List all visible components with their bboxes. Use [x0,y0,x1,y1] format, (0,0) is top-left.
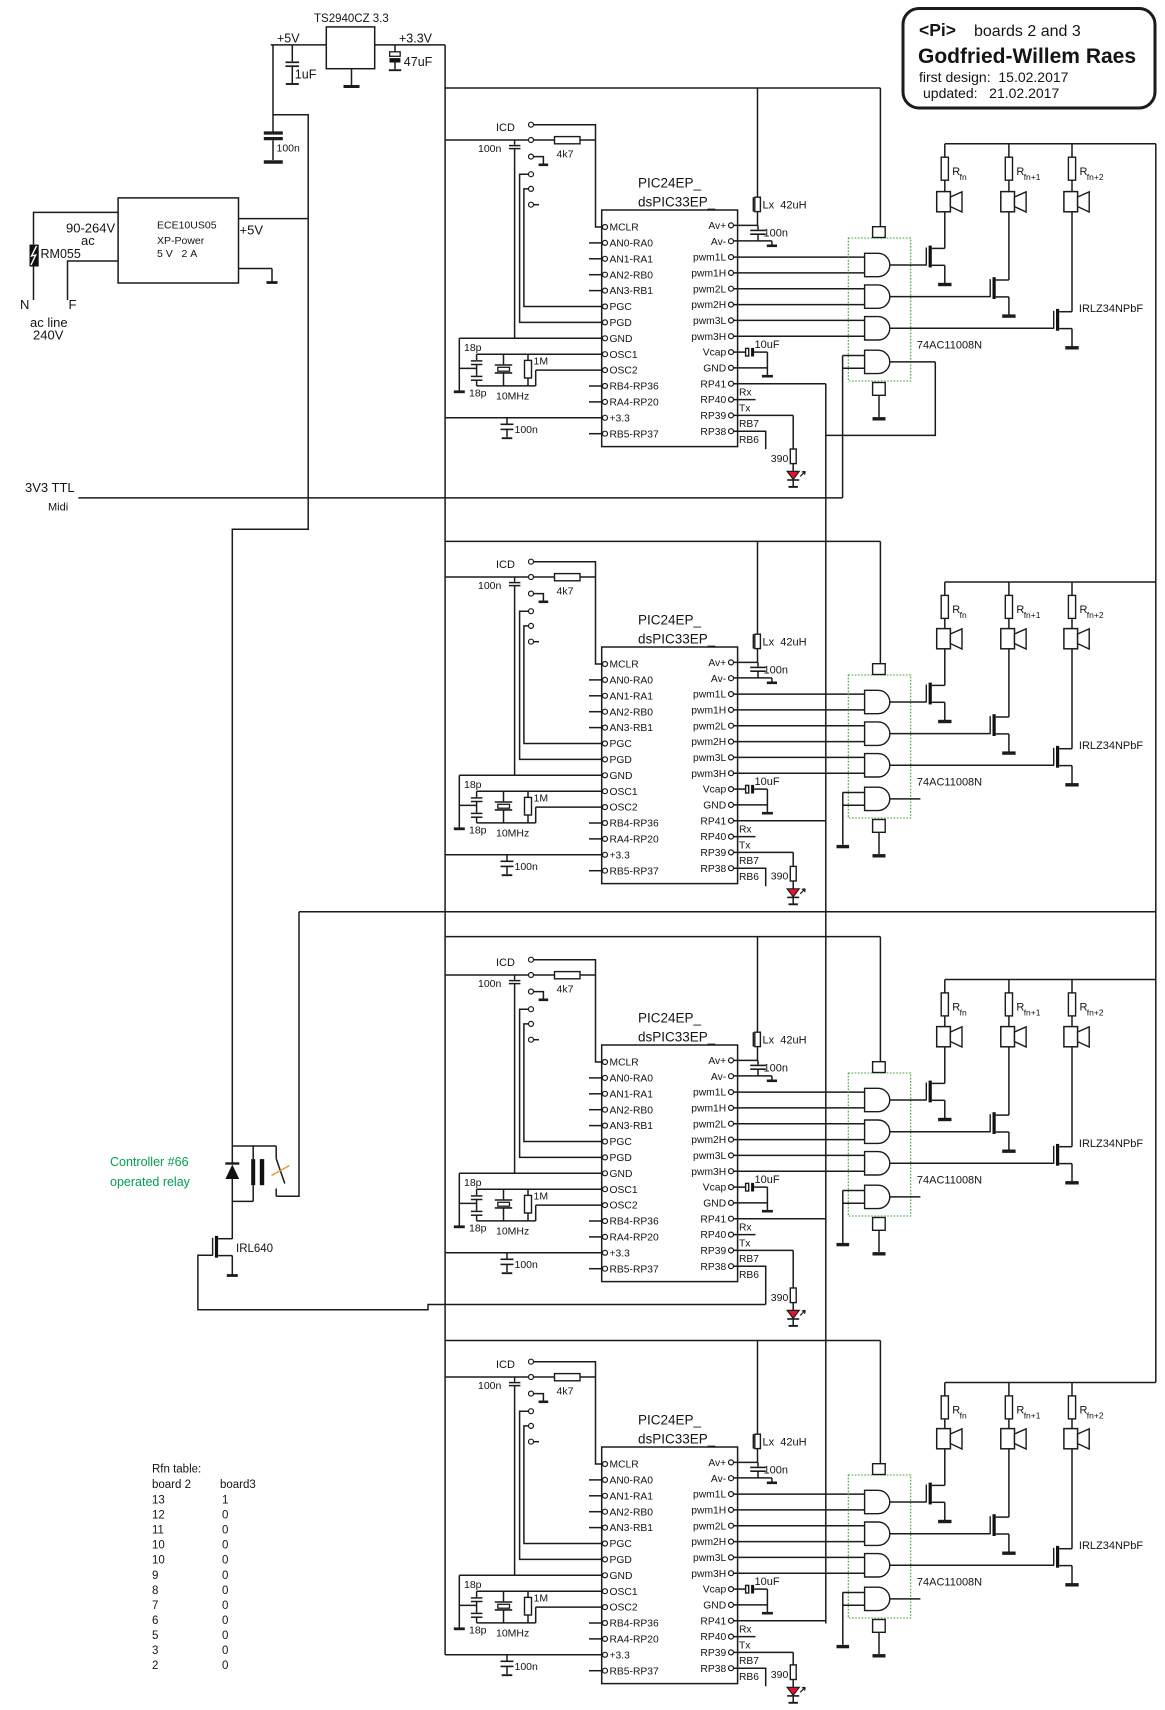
svg-text:Av+: Av+ [708,1056,726,1067]
wire ICD pin4 to PGD board2 [520,611,603,759]
microcontroller U1 PIC24EP_/dsPIC33EP_ board4 [602,1447,738,1684]
wire drain to speaker board4 [944,1449,946,1486]
pin +3.3 board1 [603,415,608,420]
crystal X1 10MHz board2 [503,791,505,801]
pin Av- board4 [729,1476,734,1481]
svg-text:RA4-RP20: RA4-RP20 [610,1635,659,1646]
wire drain to speaker board4 [1071,1449,1073,1549]
wire pwm1L to gate board3 [734,1091,865,1093]
pin AN3-RB1 board1 [603,288,608,293]
wire Av+ board1 [734,224,758,226]
pin pwm3H board3 [729,1169,734,1174]
wire stub RA4-RP20 board2 [589,838,602,840]
relay actuation slash [272,1166,290,1176]
wire feed to inductor Lx board4 [757,1341,759,1435]
crystal X1 10MHz board4 [503,1591,505,1601]
wire gate B output board3 [890,1131,990,1133]
svg-text:<Pi>: <Pi> [919,20,956,40]
resistor Rfn1 board2 [1008,582,1010,595]
ground of Q3 source board2 [1071,766,1073,785]
svg-text:1M: 1M [534,1593,549,1605]
svg-text:RB4-RP36: RB4-RP36 [610,382,659,393]
pin Av+ board2 [729,660,734,665]
wire RP38 RB6 board2 [734,868,766,886]
ground of crystal board4 [458,1575,460,1629]
svg-text:AN1-RA1: AN1-RA1 [610,1491,654,1502]
wire stub AN1-RA1 board4 [589,1495,602,1497]
svg-text:100n: 100n [764,227,788,239]
svg-text:AN1-RA1: AN1-RA1 [610,691,654,702]
capacitor 100n decoupling board2 [506,855,508,861]
wire GND pin to crystal ground board4 [459,1574,602,1576]
svg-text:100n: 100n [478,143,502,155]
wire stub AN2-RB0 board2 [589,711,602,713]
inductor Lx 42uH board4 [752,1434,754,1448]
wire caps midpoint to ground board4 [459,1604,476,1606]
pin RP40 board4 [729,1634,734,1639]
svg-text:100n: 100n [515,861,539,873]
wire GND right board3 [734,1202,768,1204]
wire pwm2L to gate board4 [734,1525,865,1527]
wire pwm2L to gate board3 [734,1123,865,1125]
resistor Rfn2 board3 [1071,980,1073,993]
svg-text:MCLR: MCLR [610,223,639,234]
svg-text:Av+: Av+ [708,658,726,669]
resistor Rfn2 board4 [1071,1383,1073,1396]
wire RP38 RB6 board1 [734,431,766,449]
pin AN2-RB0 board1 [603,272,608,277]
inductor Lx 42uH board3 [752,1032,754,1046]
wire +5V riser to regulator rail [273,45,308,219]
svg-text:Av+: Av+ [708,1458,726,1469]
svg-text:PGD: PGD [610,1153,632,1164]
resistor Rfn2 board1 [1071,144,1073,157]
ground of Q3 source board3 [1071,1164,1073,1183]
svg-text:fn+2: fn+2 [1087,172,1104,182]
wire gate D output board1 [890,361,935,363]
transistor Q5 IRL640 [212,1238,214,1256]
svg-text:Controller #66: Controller #66 [110,1155,189,1169]
pin GND board4 [603,1573,608,1578]
wire logic supply feed board1 [445,87,880,89]
svg-text:PIC24EP_: PIC24EP_ [638,176,702,191]
pin RP38 board1 [729,429,734,434]
wire stub AN0-RA0 board2 [589,679,602,681]
wire gate D input1 board2 [843,792,865,794]
wire pwm3L to gate board1 [734,319,865,321]
wire ICD pin1 to MCLR board1 [534,125,603,227]
wire drain to speaker board3 [1071,1047,1073,1147]
svg-text:N: N [20,297,29,312]
pin pwm2H board3 [729,1137,734,1142]
ground of Q1 source board1 [944,265,946,284]
wire OSC2 board1 [536,369,603,371]
wire ICD pin3 to ground board4 [534,1394,544,1401]
capacitor 100n on +5V [272,115,274,132]
svg-text:+3.3: +3.3 [610,850,631,861]
AND array 74AC11008N board4 [848,1475,910,1618]
wire GND right board1 [734,367,768,369]
wire pwm2L to gate board1 [734,288,865,290]
svg-text:Vcap: Vcap [703,785,727,796]
wire pwm1H to gate board4 [734,1509,865,1511]
svg-text:board3: board3 [220,1479,256,1491]
svg-text:pwm1H: pwm1H [691,1104,726,1115]
wire OSC1 rail board3 [477,1188,603,1190]
wire +3.3 supply to PIC board2 [445,854,602,856]
wire gate D output board2 [890,798,920,800]
svg-text:pwm3H: pwm3H [691,1569,726,1580]
svg-text:pwm3L: pwm3L [693,753,726,764]
pin MCLR board1 [603,225,608,230]
svg-text:100n: 100n [764,1062,788,1074]
svg-text:OSC1: OSC1 [610,350,638,361]
svg-text:TS2940CZ 3.3: TS2940CZ 3.3 [314,13,389,25]
speaker LS1 board3 [937,1027,951,1047]
svg-text:ac: ac [81,233,95,248]
svg-text:OSC2: OSC2 [610,1603,638,1614]
pin OSC2 board1 [603,368,608,373]
pin GND board4 [729,1602,734,1607]
pin Vcap board1 [729,350,734,355]
svg-text:AN0-RA0: AN0-RA0 [610,1074,654,1085]
wire drain to speaker board1 [944,212,946,249]
wire feed to gate array board4 [879,1341,881,1464]
svg-text:Rx: Rx [739,388,752,399]
svg-text:pwm2L: pwm2L [693,284,726,295]
svg-text:fn: fn [960,1411,967,1421]
AND gate U1B board1 [865,285,890,308]
wire drain to speaker board1 [1071,212,1073,312]
svg-text:0: 0 [222,1555,228,1567]
svg-text:boards 2 and 3: boards 2 and 3 [974,23,1081,40]
pin PGD board1 [603,320,608,325]
svg-text:GND: GND [610,771,633,782]
resistor Rfn1 board1 [1008,144,1010,157]
svg-text:10uF: 10uF [755,1576,780,1588]
pin PGC board2 [603,741,608,746]
ground pin of gate array board4 [873,1620,886,1633]
pin RP39 board1 [729,413,734,418]
svg-text:ICD: ICD [496,559,515,571]
wire pwm3H to gate board4 [734,1572,865,1574]
wire +3.3 supply to PIC board1 [445,417,602,419]
pin pwm1H board2 [729,707,734,712]
wire +5V down to relay feed [232,219,308,1146]
wire drain to speaker board2 [1071,649,1073,749]
wire caps midpoint to ground board1 [459,367,476,369]
speaker LS1 board1 [937,192,951,212]
wire stub RB5-RP37 board3 [589,1268,602,1270]
pin OSC2 board3 [603,1203,608,1208]
wire gate C output board3 [890,1162,1054,1164]
pin AN1-RA1 board1 [603,256,608,261]
svg-text:4k7: 4k7 [557,586,574,598]
wire Av+ board3 [734,1059,758,1061]
pin RP40 board1 [729,397,734,402]
svg-text:1M: 1M [534,356,549,368]
pin pwm2L board1 [729,286,734,291]
LED D2 board3 [787,1310,799,1318]
wire RP41 Rx board3 [734,1218,826,1220]
pin AN1-RA1 board3 [603,1091,608,1096]
pin pwm2H board2 [729,739,734,744]
svg-text:pwm1H: pwm1H [691,1506,726,1517]
wire OSC2 board3 [536,1204,603,1206]
wire pwm2H to gate board1 [734,304,865,306]
svg-text:74AC11008N: 74AC11008N [917,776,982,788]
pin RP41 board2 [729,818,734,823]
svg-text:pwm3L: pwm3L [693,1553,726,1564]
pin RB5-RP37 board3 [603,1266,608,1271]
svg-text:Vcap: Vcap [703,348,727,359]
pin AN1-RA1 board2 [603,693,608,698]
svg-text:GND: GND [610,334,633,345]
transistor Q1 IRLZ34NPbF board2 [925,685,927,703]
wire GND pin to crystal ground board2 [459,774,602,776]
wire gate D output board4 [890,1598,920,1600]
pin RB4-RP36 board1 [603,384,608,389]
speaker LS1 board2 [937,629,951,649]
pin pwm1L board1 [729,255,734,260]
svg-text:390: 390 [771,870,789,882]
wire gate C output board4 [890,1564,1054,1566]
wire gate D input2 board4 [843,1604,865,1606]
wire pwm2L to gate board2 [734,725,865,727]
pin +3.3 board4 [603,1652,608,1657]
svg-text:RP38: RP38 [700,1262,726,1273]
svg-text:18p: 18p [469,1625,487,1637]
pin RP39 board3 [729,1248,734,1253]
wire feed to gate array board1 [879,88,881,227]
svg-text:fn: fn [960,172,967,182]
svg-text:fn+2: fn+2 [1087,1008,1104,1018]
svg-text:10uF: 10uF [755,776,780,788]
svg-text:AN0-RA0: AN0-RA0 [610,1476,654,1487]
pin Vcap board3 [729,1185,734,1190]
wire pwm3L to gate board2 [734,756,865,758]
pin RP39 board4 [729,1650,734,1655]
svg-text:4k7: 4k7 [557,1386,574,1398]
wire ICD pin3 to ground board3 [534,992,544,999]
pin OSC2 board4 [603,1605,608,1610]
wire gate D input1 board1 [843,355,865,357]
wire crystal bottom rail board1 [477,385,536,387]
capacitor 100n ICD board2 [514,577,516,582]
pin pwm3L board3 [729,1153,734,1158]
wire feed to gate array board2 [879,541,881,663]
wire RP38 RB6 board4 [734,1668,766,1686]
pin RP38 board4 [729,1666,734,1671]
svg-text:0: 0 [222,1510,228,1522]
svg-text:100n: 100n [478,1380,502,1392]
wire stub AN3-RB1 board4 [589,1527,602,1529]
wire stub RB4-RP36 board3 [589,1220,602,1222]
pin RP38 board2 [729,866,734,871]
wire MIDI input line [78,497,842,499]
svg-text:18p: 18p [469,1223,487,1235]
AND gate U4B board4 [865,1522,890,1545]
transistor Q2 IRLZ34NPbF board2 [989,716,991,734]
pin pwm2H board1 [729,302,734,307]
wire RP39 to resistor 390 board1 [792,415,794,449]
svg-text:fn+1: fn+1 [1024,1411,1041,1421]
wire ICD pin1 to MCLR board2 [534,562,603,664]
svg-text:AN0-RA0: AN0-RA0 [610,239,654,250]
wire stub AN3-RB1 board1 [589,290,602,292]
diode D1 relay flyback [231,1146,233,1163]
svg-text:10MHz: 10MHz [496,828,529,840]
svg-text:0: 0 [222,1630,228,1642]
svg-text:GND: GND [610,1169,633,1180]
capacitor 18p upper board4 [476,1591,478,1597]
wire drain to speaker board3 [1008,1047,1010,1115]
wire GND right board4 [734,1604,768,1606]
capacitor 100n decoupling board1 [506,418,508,424]
svg-text:IRL640: IRL640 [236,1243,273,1255]
svg-text:GND: GND [703,1199,726,1210]
wire +3.3 supply to PIC board3 [445,1252,602,1254]
svg-text:pwm1L: pwm1L [693,1088,726,1099]
wire ICD pin5 to PGC board4 [524,1426,602,1544]
svg-text:RP39: RP39 [700,411,726,422]
svg-text:Rx: Rx [739,1223,752,1234]
pin OSC1 board2 [603,789,608,794]
svg-text:100n: 100n [277,143,301,155]
svg-text:74AC11008N: 74AC11008N [917,339,982,351]
svg-text:RB4-RP36: RB4-RP36 [610,1217,659,1228]
pin GND board1 [729,365,734,370]
pin pwm1H board1 [729,270,734,275]
svg-text:5 V 2 A: 5 V 2 A [157,248,197,260]
transistor Q3 IRLZ34NPbF board3 [1053,1146,1055,1164]
wire gate C output board1 [890,327,1054,329]
wire gate C output board2 [890,764,1054,766]
AND gate U3C board3 [865,1152,890,1175]
svg-text:Tx: Tx [739,1640,751,1651]
transistor Q2 IRLZ34NPbF board4 [989,1516,991,1534]
svg-text:RB7: RB7 [739,419,759,430]
svg-text:10: 10 [152,1555,165,1567]
wire RP41 Rx board4 [734,1620,826,1622]
svg-text:RP39: RP39 [700,1246,726,1257]
wire gate B output board1 [890,296,990,298]
svg-text:ECE10US05: ECE10US05 [157,220,217,232]
wire gate D inputs to ground board2 [842,793,844,845]
wire ICD pin2 Vdd board4 [445,1376,528,1378]
wire pwm2H to gate board2 [734,741,865,743]
wire stub RB5-RP37 board1 [589,433,602,435]
LED D2 board4 [787,1687,799,1695]
resistor Rfn0 board4 [944,1383,946,1396]
wire pwm3H to gate board3 [734,1170,865,1172]
capacitor 18p upper board3 [476,1189,478,1195]
wire RP41 Rx board2 [734,820,826,822]
wire gate D input1 board4 [843,1592,865,1594]
pin Av+ board1 [729,223,734,228]
capacitor 100n analog board1 [757,225,759,229]
speaker LS2 board1 [1001,192,1015,212]
pin PGD board2 [603,757,608,762]
svg-text:0: 0 [222,1600,228,1612]
speaker LS2 board2 [1001,629,1015,649]
speaker LS3 board3 [1064,1027,1078,1047]
pin GND board2 [603,773,608,778]
wire OSC1 rail board4 [477,1590,603,1592]
capacitor 100n ICD board4 [514,1377,516,1382]
wire gate A output board1 [890,264,926,266]
pin RA4-RP20 board1 [603,399,608,404]
svg-text:RB5-RP37: RB5-RP37 [610,429,659,440]
svg-text:operated relay: operated relay [110,1175,191,1189]
svg-text:390: 390 [771,1669,789,1681]
pin pwm1L board3 [729,1090,734,1095]
pin AN0-RA0 board2 [603,677,608,682]
svg-text:RB7: RB7 [739,856,759,867]
capacitor 100n analog board3 [757,1060,759,1064]
voltage regulator U3 TS2940CZ 3.3 [326,27,374,69]
svg-text:dsPIC33EP_: dsPIC33EP_ [638,1432,716,1447]
svg-text:Vcap: Vcap [703,1183,727,1194]
svg-text:GND: GND [703,364,726,375]
capacitor 100n ICD board1 [514,140,516,145]
wire gate D input2 board2 [843,804,865,806]
svg-text:47uF: 47uF [404,55,433,69]
wire gate D input1 board3 [843,1190,865,1192]
AND gate U3A board3 [865,1088,890,1111]
svg-text:9: 9 [152,1570,158,1582]
wire speaker supply right-edge vertical [1155,144,1157,1383]
wire ICD pin6 stub board2 [534,641,539,643]
svg-text:13: 13 [152,1495,165,1507]
wire stub AN2-RB0 board1 [589,274,602,276]
transistor Q1 IRLZ34NPbF board3 [925,1083,927,1101]
wire logic supply feed board3 [445,936,880,938]
AND gate U1C board1 [865,317,890,340]
microcontroller U1 PIC24EP_/dsPIC33EP_ board3 [602,1045,738,1282]
AND array 74AC11008N board3 [848,1073,910,1216]
wire RP40 Tx stub board1 [734,399,756,401]
svg-text:OSC1: OSC1 [610,1185,638,1196]
pin AN1-RA1 board4 [603,1493,608,1498]
AND array 74AC11008N board1 [848,238,910,381]
svg-text:RP38: RP38 [700,1664,726,1675]
inductor Lx 42uH board2 [752,634,754,648]
svg-text:18p: 18p [464,342,482,354]
wire Rx chain vertical [825,384,827,1624]
power pin of gate array board3 [873,1062,886,1073]
svg-text:fn+1: fn+1 [1024,1008,1041,1018]
wire OSC1 rail board1 [477,353,603,355]
capacitor 18p lower board4 [471,1612,483,1614]
svg-text:dsPIC33EP_: dsPIC33EP_ [638,195,716,210]
ground of Q1 source board2 [944,702,946,721]
pin PGC board3 [603,1139,608,1144]
pin MCLR board2 [603,662,608,667]
pin pwm3L board4 [729,1555,734,1560]
svg-text:PGC: PGC [610,1539,633,1550]
wire stub RB4-RP36 board2 [589,822,602,824]
transistor Q1 IRLZ34NPbF board4 [925,1485,927,1503]
pin GND board3 [603,1171,608,1176]
svg-text:390: 390 [771,453,789,465]
wire crystal bottom rail board4 [477,1622,536,1624]
wire pwm1L to gate board2 [734,693,865,695]
wire RP39 to resistor 390 board4 [792,1652,794,1665]
svg-text:10uF: 10uF [755,339,780,351]
wire ICD pin3 to ground board2 [534,594,544,601]
svg-text:8: 8 [152,1585,158,1597]
